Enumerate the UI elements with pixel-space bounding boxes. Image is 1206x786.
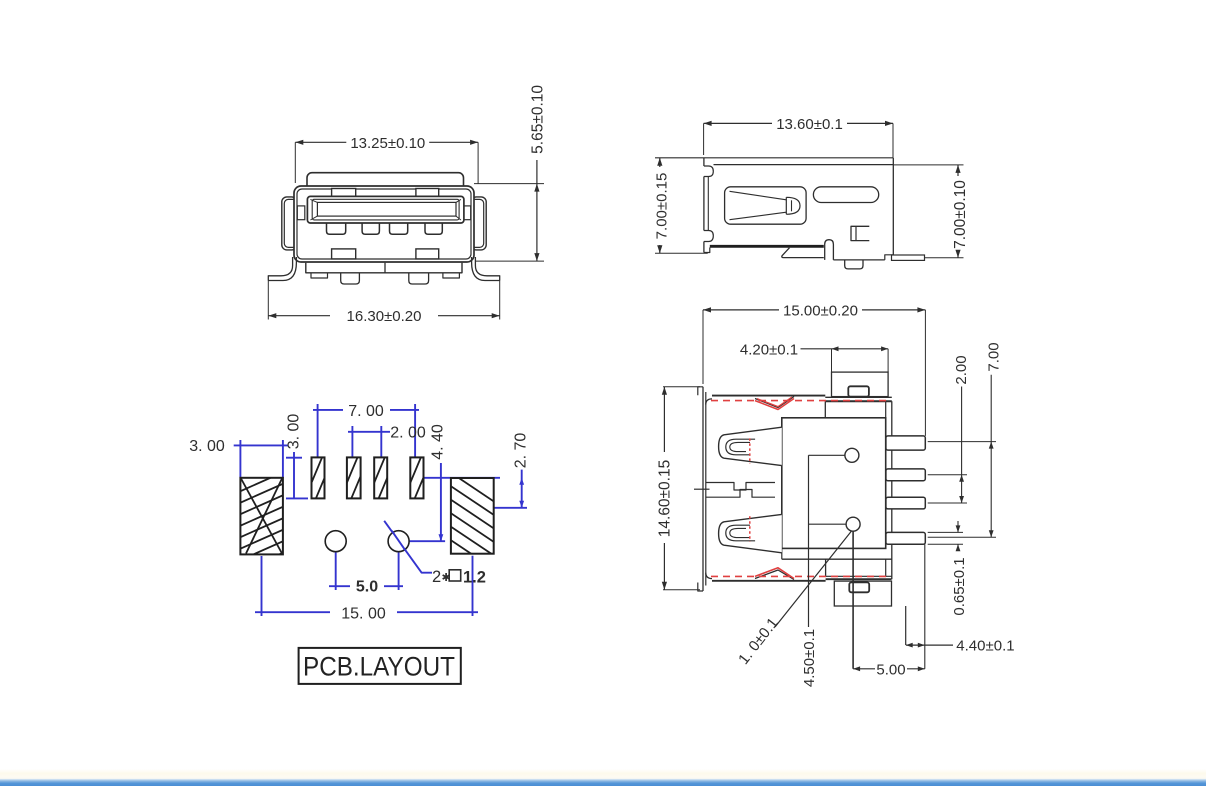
svg-text:16.30±0.20: 16.30±0.20 — [347, 308, 422, 325]
svg-text:3. 00: 3. 00 — [189, 438, 225, 455]
svg-text:5.65±0.10: 5.65±0.10 — [530, 85, 547, 154]
svg-text:2: 2 — [432, 568, 441, 586]
svg-text:0.65±0.1: 0.65±0.1 — [951, 557, 968, 615]
svg-text:13.60±0.1: 13.60±0.1 — [776, 116, 843, 133]
svg-text:7.00: 7.00 — [985, 342, 1002, 371]
svg-text:4.50±0.1: 4.50±0.1 — [801, 629, 818, 687]
svg-text:13.25±0.10: 13.25±0.10 — [350, 135, 425, 152]
svg-text:7.00±0.10: 7.00±0.10 — [952, 180, 969, 249]
svg-text:4. 40: 4. 40 — [430, 424, 447, 460]
svg-text:5.0: 5.0 — [356, 579, 378, 596]
svg-text:15.00±0.20: 15.00±0.20 — [783, 302, 858, 319]
svg-text:3. 00: 3. 00 — [285, 414, 302, 450]
svg-text:2.00: 2.00 — [953, 355, 970, 384]
svg-text:4.40±0.1: 4.40±0.1 — [956, 638, 1014, 655]
svg-text:15. 00: 15. 00 — [341, 606, 386, 623]
svg-text:4.20±0.1: 4.20±0.1 — [740, 341, 798, 358]
svg-text:PCB.LAYOUT: PCB.LAYOUT — [303, 652, 455, 682]
svg-text:5.00: 5.00 — [876, 661, 905, 678]
svg-text:2. 00: 2. 00 — [390, 425, 426, 442]
svg-text:7. 00: 7. 00 — [348, 403, 384, 420]
svg-text:14.60±0.15: 14.60±0.15 — [657, 460, 674, 537]
svg-text:7.00±0.15: 7.00±0.15 — [654, 173, 671, 240]
svg-text:2. 70: 2. 70 — [513, 433, 530, 469]
svg-text:1.2: 1.2 — [463, 569, 486, 587]
